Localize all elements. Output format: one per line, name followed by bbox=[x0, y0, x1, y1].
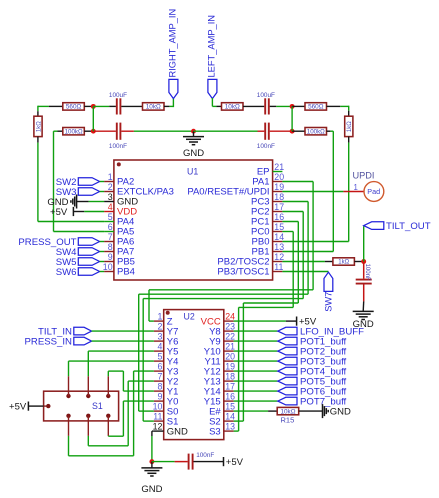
U2 pin 19 Y12 bbox=[204, 362, 235, 378]
svg-text:1kΩ: 1kΩ bbox=[347, 121, 353, 132]
net label POT5_buff bbox=[234, 376, 347, 387]
U1 pin 4 VDD bbox=[104, 202, 137, 218]
svg-text:16: 16 bbox=[225, 392, 235, 402]
U2 pin 17 Y14 bbox=[204, 382, 235, 398]
wire S1 top contact 1 to Y4 bbox=[69, 361, 154, 396]
svg-text:5: 5 bbox=[157, 352, 162, 362]
junction node right top bbox=[290, 104, 295, 109]
net label PRESS_OUT bbox=[18, 237, 104, 248]
net label SW2 bbox=[56, 177, 104, 188]
connector RIGHT_AMP_IN bbox=[167, 9, 178, 99]
svg-text:21: 21 bbox=[225, 342, 235, 352]
svg-text:TILT_OUT: TILT_OUT bbox=[386, 221, 431, 232]
wire S1 bottom contact 3 to Y0 bbox=[108, 401, 154, 436]
junction node left row2 bbox=[91, 129, 96, 134]
svg-text:10kΩ: 10kΩ bbox=[225, 104, 240, 111]
wire 100uF to 10k left bbox=[121, 105, 142, 107]
net label SW5 bbox=[56, 257, 104, 268]
resistor 560R left bbox=[63, 103, 85, 111]
U2 pin 2 Y7 bbox=[154, 322, 179, 338]
test pad UPDI bbox=[353, 171, 384, 202]
svg-text:23: 23 bbox=[225, 322, 235, 332]
wire 100k left to junction bbox=[84, 130, 93, 132]
net label POT2_buff bbox=[234, 346, 347, 357]
svg-text:6: 6 bbox=[157, 362, 162, 372]
svg-text:1: 1 bbox=[353, 183, 357, 192]
wire S1 bottom contact 2 to Y2 bbox=[88, 381, 154, 446]
svg-text:SW6: SW6 bbox=[56, 267, 77, 278]
wire junction up to TILT_OUT bbox=[363, 226, 365, 261]
wire S1 top contact 2 to Y5 bbox=[88, 351, 154, 396]
U2 pin 7 Y2 bbox=[154, 372, 179, 388]
wire PA0 to UPDI pad bbox=[282, 191, 364, 193]
svg-text:8: 8 bbox=[108, 242, 113, 252]
resistor R15 10k bbox=[277, 407, 299, 424]
svg-text:SW7: SW7 bbox=[324, 292, 334, 312]
svg-text:1kΩ: 1kΩ bbox=[36, 121, 42, 132]
svg-text:100kΩ: 100kΩ bbox=[65, 129, 83, 136]
wire PB2 to 1k resistor bbox=[282, 261, 333, 263]
svg-text:24: 24 bbox=[225, 312, 235, 322]
U2 pin 11 S1 bbox=[153, 412, 178, 428]
wire 560R right to corner bbox=[327, 105, 349, 107]
wire junction to 100k right bbox=[292, 130, 305, 132]
wire corner down to 1k left vertical bbox=[37, 106, 39, 117]
net label SW3 bbox=[56, 187, 104, 198]
svg-text:1: 1 bbox=[108, 172, 113, 182]
svg-text:1: 1 bbox=[157, 312, 162, 322]
U2 pin 14 S2 bbox=[209, 412, 235, 428]
svg-text:10: 10 bbox=[103, 262, 113, 272]
U1 pin 13 PB1 bbox=[252, 242, 285, 258]
svg-text:2: 2 bbox=[108, 182, 113, 192]
U1 pin 17 PC2 bbox=[251, 202, 284, 218]
svg-text:19: 19 bbox=[225, 362, 235, 372]
wire junction to 560R right bbox=[292, 105, 305, 107]
wire 10k right to 100uF right bbox=[243, 105, 264, 107]
svg-text:14: 14 bbox=[274, 232, 284, 242]
svg-text:8: 8 bbox=[157, 382, 162, 392]
U2 pin 4 Y5 bbox=[154, 342, 179, 358]
U2 pin 22 Y9 bbox=[209, 332, 235, 348]
wire corner down to 1k right vertical bbox=[348, 106, 350, 117]
svg-text:22: 22 bbox=[225, 332, 235, 342]
wire GND junction to 100nF right bbox=[194, 130, 265, 132]
wire 100nF bottom to +5V bbox=[194, 461, 224, 463]
wire junction to 100nF left bbox=[93, 130, 116, 132]
svg-text:+5V: +5V bbox=[50, 207, 68, 218]
svg-text:19: 19 bbox=[274, 182, 284, 192]
U1 pin 6 PA5 bbox=[104, 222, 134, 238]
capacitor 100nF TILT bbox=[356, 262, 372, 284]
svg-text:560Ω: 560Ω bbox=[308, 104, 324, 111]
svg-text:13: 13 bbox=[274, 242, 284, 252]
svg-text:5: 5 bbox=[108, 212, 113, 222]
svg-text:PB3/TOSC1: PB3/TOSC1 bbox=[217, 267, 269, 278]
U2 pin 3 Y6 bbox=[154, 332, 179, 348]
capacitor 100uF right bbox=[257, 92, 275, 114]
U2 pin 23 Y8 bbox=[209, 322, 235, 338]
resistor 1k left vertical bbox=[34, 116, 42, 136]
svg-text:100nF: 100nF bbox=[196, 452, 214, 459]
net label POT3_buff bbox=[234, 356, 347, 367]
U2 pin 13 S3 bbox=[209, 422, 235, 438]
svg-text:Pad: Pad bbox=[367, 187, 380, 196]
svg-text:12: 12 bbox=[153, 422, 163, 432]
ground symbol at R15 bbox=[323, 404, 352, 418]
resistor 100k left bbox=[63, 128, 85, 136]
U1 pin 19 PA0/RESET#/UPDI bbox=[187, 182, 284, 198]
net label LFO_IN_BUFF bbox=[234, 326, 365, 337]
svg-text:R15: R15 bbox=[281, 416, 295, 425]
svg-text:11: 11 bbox=[153, 412, 162, 422]
svg-text:18: 18 bbox=[225, 372, 235, 382]
svg-text:100uF: 100uF bbox=[257, 92, 275, 99]
U2 pin 8 Y1 bbox=[154, 382, 179, 398]
U2 pin 12 GND bbox=[153, 422, 188, 438]
svg-text:UPDI: UPDI bbox=[353, 171, 375, 181]
svg-text:11: 11 bbox=[274, 262, 283, 272]
wire net PC1 to S2 bbox=[234, 222, 299, 422]
wire left input corner to 1k bbox=[38, 105, 63, 107]
wire S1 top contact 3 to Y1 bbox=[108, 371, 154, 396]
wire junction vertical left bbox=[92, 106, 94, 131]
wire 100nF right to junction bbox=[270, 130, 292, 132]
svg-text:17: 17 bbox=[225, 382, 235, 392]
net label POT6_buff bbox=[234, 386, 347, 397]
U1 pin 11 PB3/TOSC1 bbox=[217, 262, 283, 278]
wire junction to 100uF left bbox=[93, 105, 116, 107]
U2 pin 20 Y11 bbox=[204, 352, 235, 368]
svg-text:1kΩ: 1kΩ bbox=[338, 260, 349, 266]
wire 100k left corner down to PA5 bbox=[54, 131, 105, 231]
svg-text:U1: U1 bbox=[187, 167, 198, 177]
net label TILT_IN bbox=[38, 326, 154, 337]
svg-text:PRESS_IN: PRESS_IN bbox=[25, 336, 73, 347]
U2 pin 15 E# bbox=[209, 402, 235, 418]
wire 100nF TILT to ground bbox=[362, 285, 365, 312]
svg-text:15: 15 bbox=[274, 222, 284, 232]
svg-text:2: 2 bbox=[157, 322, 162, 332]
svg-text:U2: U2 bbox=[184, 311, 195, 321]
power +5V at U2 pin 24 VCC bbox=[234, 317, 317, 328]
ground symbol top center bbox=[183, 131, 204, 159]
junction node right row2 bbox=[290, 129, 295, 134]
power +5V bottom bbox=[224, 457, 244, 468]
svg-text:S3: S3 bbox=[209, 426, 221, 437]
junction node bottom GND bbox=[149, 459, 154, 464]
wire 1k right down to PB0 bbox=[282, 137, 348, 242]
wire 100nF left to GND junction bbox=[121, 130, 193, 132]
wire 100k right to corner down to PB1 bbox=[282, 131, 333, 251]
U2 pin 24 VCC bbox=[201, 312, 235, 328]
svg-text:3: 3 bbox=[157, 332, 162, 342]
U2 pin 16 Y15 bbox=[204, 392, 235, 408]
svg-text:GND: GND bbox=[141, 484, 162, 495]
junction node GND top bbox=[191, 129, 196, 134]
resistor 1k TILT bbox=[333, 258, 355, 266]
U1 pin 12 PB2/TOSC2 bbox=[217, 252, 284, 268]
svg-text:21: 21 bbox=[274, 162, 284, 172]
svg-text:9: 9 bbox=[108, 252, 113, 262]
svg-text:12: 12 bbox=[274, 252, 284, 262]
U2 pin 18 Y13 bbox=[204, 372, 235, 388]
U1 pin 15 PC0 bbox=[251, 222, 284, 238]
U1 pin 10 PB4 bbox=[103, 262, 135, 278]
svg-text:13: 13 bbox=[225, 422, 235, 432]
U1 pin 7 PA6 bbox=[104, 232, 134, 248]
U1 pin 16 PC1 bbox=[251, 212, 284, 228]
svg-text:560Ω: 560Ω bbox=[66, 104, 82, 111]
wire 560R left to junction bbox=[84, 105, 93, 107]
U1 pin 14 PB0 bbox=[252, 232, 285, 248]
op-amp U1 ATtiny MCU body bbox=[114, 160, 273, 280]
svg-text:20: 20 bbox=[225, 352, 235, 362]
U2 pin 10 S0 bbox=[153, 402, 179, 418]
svg-text:4: 4 bbox=[108, 202, 113, 212]
svg-text:100kΩ: 100kΩ bbox=[307, 129, 325, 136]
U2 pin 1 Z bbox=[154, 312, 173, 328]
resistor 100k right bbox=[305, 128, 327, 136]
U1 pin 3 GND bbox=[104, 192, 138, 208]
power +5V at U1 pin 4 VDD bbox=[50, 207, 104, 218]
capacitor 100nF left bbox=[109, 123, 127, 150]
net label SW4 bbox=[56, 247, 104, 258]
U2 pin 6 Y3 bbox=[154, 362, 179, 378]
svg-text:GND: GND bbox=[330, 407, 351, 418]
wire row2 corner to 100k left bbox=[54, 130, 63, 132]
svg-text:15: 15 bbox=[225, 402, 235, 412]
resistor 1k right vertical bbox=[345, 116, 353, 136]
svg-text:+5V: +5V bbox=[9, 402, 27, 413]
svg-text:4: 4 bbox=[157, 342, 162, 352]
capacitor 100nF right bbox=[257, 123, 275, 150]
svg-text:LEFT_AMP_IN: LEFT_AMP_IN bbox=[206, 15, 216, 78]
U1 pin 20 PA1 bbox=[252, 172, 284, 188]
U1 pin 5 PA4 bbox=[104, 212, 134, 228]
net label PRESS_IN bbox=[25, 336, 154, 347]
svg-text:7: 7 bbox=[108, 232, 113, 242]
wire U2 GND pin to ground junction bbox=[152, 431, 154, 462]
svg-text:18: 18 bbox=[274, 192, 284, 202]
svg-text:PB4: PB4 bbox=[117, 267, 135, 278]
capacitor 100nF bottom bbox=[189, 452, 215, 470]
net label POT7_buff bbox=[234, 396, 347, 407]
svg-text:14: 14 bbox=[225, 412, 235, 422]
wire net PC3 to S0 bbox=[139, 202, 308, 412]
svg-text:20: 20 bbox=[274, 172, 284, 182]
capacitor 100uF left bbox=[109, 92, 127, 114]
svg-text:GND: GND bbox=[167, 426, 188, 437]
wire 100uF right to junction bbox=[270, 105, 292, 107]
connector LEFT_AMP_IN bbox=[206, 15, 217, 99]
svg-text:7: 7 bbox=[157, 372, 162, 382]
wire E# to R15 bbox=[234, 410, 278, 412]
switch S1 body bbox=[44, 391, 119, 421]
ground symbol bottom bbox=[141, 462, 162, 495]
U1 pin 8 PA7 bbox=[104, 242, 134, 258]
svg-text:6: 6 bbox=[108, 222, 113, 232]
junction node left top bbox=[91, 104, 96, 109]
U2 pin 5 Y4 bbox=[154, 352, 179, 368]
resistor 10k right bbox=[222, 103, 244, 111]
svg-text:10kΩ: 10kΩ bbox=[146, 104, 161, 111]
U1 pin 1 PA2 bbox=[104, 172, 134, 188]
svg-text:10: 10 bbox=[153, 402, 163, 412]
wire junction vertical right bbox=[291, 106, 293, 131]
svg-text:17: 17 bbox=[274, 202, 284, 212]
svg-text:16: 16 bbox=[274, 212, 284, 222]
net label POT4_buff bbox=[234, 366, 347, 377]
U1 pin 2 EXTCLK/PA3 bbox=[104, 182, 174, 198]
resistor 560R right bbox=[305, 103, 327, 111]
wire net PA1 to Z bbox=[149, 182, 313, 322]
U1 pin 21 EP bbox=[257, 162, 284, 178]
net label POT1_buff bbox=[234, 336, 347, 347]
ground symbol at U1 pin 3 bbox=[47, 195, 104, 209]
U2 pin 9 Y0 bbox=[154, 392, 179, 408]
U1 pin 9 PB5 bbox=[104, 252, 135, 268]
wire R15 to ground bbox=[299, 410, 323, 412]
wire 10k left to RIGHT_AMP_IN bbox=[164, 98, 173, 107]
power +5V at S1 bbox=[9, 402, 46, 413]
ground symbol right of U2 bbox=[353, 311, 374, 330]
wire net PC2 to S1 bbox=[143, 212, 303, 422]
svg-text:+5V: +5V bbox=[226, 457, 244, 468]
net label SW6 bbox=[56, 267, 104, 278]
wire PB3 to SW7 bbox=[282, 271, 328, 273]
wire S1 bottom contact 1 to Y3 bbox=[69, 371, 154, 456]
svg-text:GND: GND bbox=[183, 148, 204, 159]
svg-text:10kΩ: 10kΩ bbox=[280, 408, 295, 415]
connector TILT_OUT bbox=[364, 221, 431, 232]
junction node TILT bbox=[361, 259, 366, 264]
resistor 10k left bbox=[143, 103, 165, 111]
S1 contact dots bbox=[46, 394, 110, 418]
wire junction to 100nF bottom bbox=[152, 461, 188, 463]
wire 1k to TILT junction bbox=[354, 261, 363, 263]
svg-text:9: 9 bbox=[157, 392, 162, 402]
wire 1k left down to PA4 bbox=[38, 137, 104, 222]
svg-text:100nF: 100nF bbox=[109, 143, 127, 150]
svg-text:3: 3 bbox=[108, 192, 113, 202]
U2 pin 21 Y10 bbox=[204, 342, 235, 358]
net label SW7 bbox=[324, 272, 334, 312]
U1 pin 18 PC3 bbox=[251, 192, 284, 208]
svg-text:100nF: 100nF bbox=[257, 143, 275, 150]
svg-text:RIGHT_AMP_IN: RIGHT_AMP_IN bbox=[167, 9, 177, 78]
wire net PC0 to S3 bbox=[234, 232, 294, 432]
multiplexer U2 body bbox=[164, 310, 224, 440]
svg-text:S1: S1 bbox=[92, 401, 103, 411]
svg-text:100uF: 100uF bbox=[109, 92, 127, 99]
svg-text:100nF: 100nF bbox=[364, 264, 370, 281]
wire LEFT_AMP_IN to 10k right bbox=[212, 98, 221, 106]
